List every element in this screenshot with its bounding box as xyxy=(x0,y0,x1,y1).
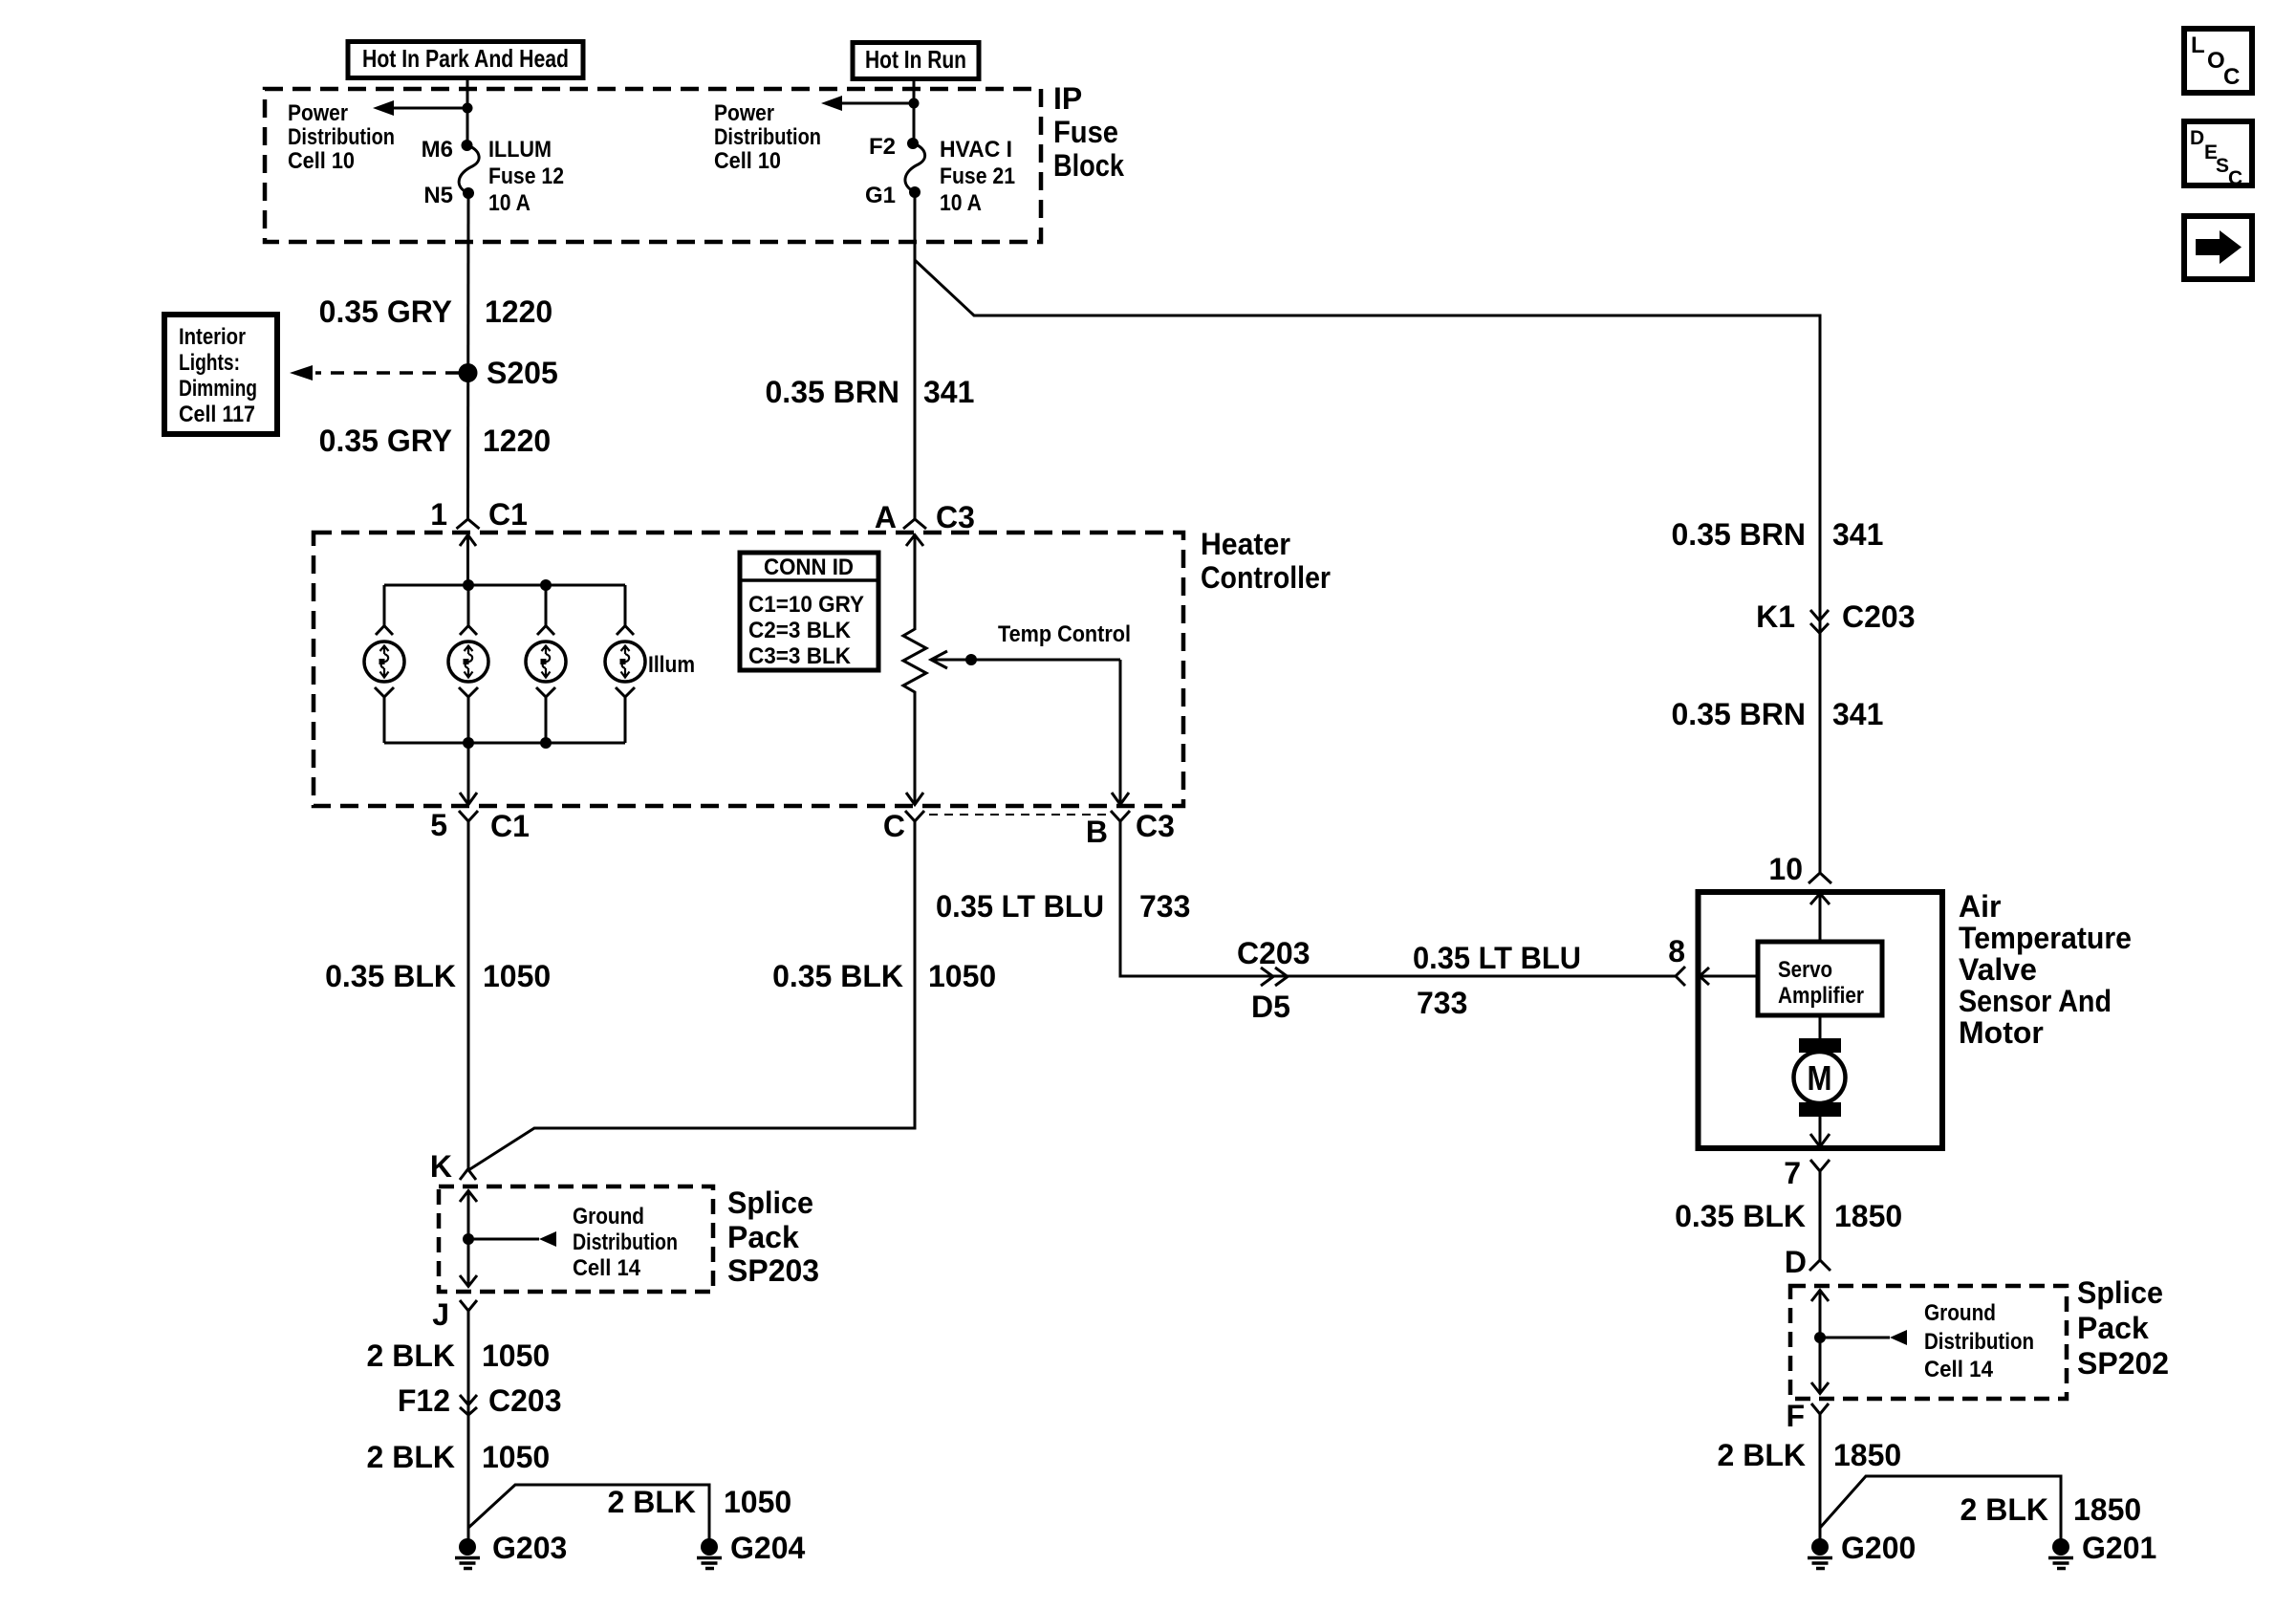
svg-text:2 BLK: 2 BLK xyxy=(1960,1492,2048,1527)
wire 341 BRN from G1 down to pin A xyxy=(914,192,917,519)
svg-text:Controller: Controller xyxy=(1201,560,1331,595)
svg-text:10 A: 10 A xyxy=(940,190,982,216)
ground G204 xyxy=(697,1538,722,1569)
ground G201 xyxy=(2048,1538,2073,1569)
connector chevron pin J xyxy=(460,1300,477,1311)
entry arrow pin1 inside heater box xyxy=(460,535,476,586)
label IP Fuse Block xyxy=(1053,81,1124,183)
svg-text:C: C xyxy=(2228,167,2242,189)
wire from Hot In Park And Head into fuse 12 xyxy=(466,77,469,147)
svg-text:Block: Block xyxy=(1053,148,1124,183)
exit wire pin5 with down arrow xyxy=(460,743,477,805)
svg-text:733: 733 xyxy=(1139,889,1190,924)
svg-text:K1: K1 xyxy=(1756,599,1795,634)
svg-text:1050: 1050 xyxy=(724,1485,791,1519)
svg-text:G203: G203 xyxy=(492,1531,567,1565)
in-line connector K1 C203 (double chevron down) xyxy=(1810,610,1829,633)
svg-text:J: J xyxy=(432,1297,449,1332)
connector chevron pin 10 xyxy=(1809,873,1831,883)
wire 733 LT BLU down from B xyxy=(1120,821,1676,976)
Servo Amplifier box xyxy=(1758,942,1882,1015)
arrow to Power Distribution (right) xyxy=(821,96,914,111)
svg-text:0.35 GRY: 0.35 GRY xyxy=(319,424,452,458)
motor M top commutator block xyxy=(1799,1038,1841,1053)
svg-text:Temp Control: Temp Control xyxy=(998,621,1131,647)
illumination lamp 2 xyxy=(448,585,488,743)
IP fuse block dashed box xyxy=(265,89,1041,242)
svg-text:Ground: Ground xyxy=(573,1204,644,1229)
Splice Pack SP202 dashed box xyxy=(1790,1286,2067,1399)
svg-text:Fuse 12: Fuse 12 xyxy=(488,163,564,189)
connector chevron pin 7 xyxy=(1810,1160,1830,1171)
svg-text:Distribution: Distribution xyxy=(288,124,395,150)
svg-text:0.35 BRN: 0.35 BRN xyxy=(1672,517,1807,552)
dashed arrow to Interior Lights Dimming xyxy=(290,365,459,381)
svg-text:8: 8 xyxy=(1668,934,1685,968)
label 0.35 BRN 341 (center) xyxy=(766,375,975,409)
exit wire pin 7 with down arrow xyxy=(1810,1117,1830,1147)
svg-text:Hot In Park And Head: Hot In Park And Head xyxy=(362,44,569,73)
label pin A connector C3 xyxy=(875,500,975,534)
svg-text:C203: C203 xyxy=(488,1383,562,1418)
svg-text:C3: C3 xyxy=(936,500,975,534)
label Splice Pack SP203 xyxy=(727,1186,819,1288)
wire from Hot In Run into fuse 21 xyxy=(913,78,916,144)
svg-text:D: D xyxy=(1785,1245,1807,1279)
svg-text:Valve: Valve xyxy=(1959,952,2037,987)
connector chevron pin K xyxy=(460,1169,476,1180)
wire servo amplifier to motor xyxy=(1819,1015,1822,1038)
svg-text:Illum: Illum xyxy=(648,652,695,678)
label box Hot In Park And Head xyxy=(348,42,583,78)
splice SP202 internal wire with arrows xyxy=(1811,1291,1829,1395)
label ILLUM Fuse 12 10 A xyxy=(488,137,564,216)
node junction at Hot In Run feed xyxy=(909,98,920,109)
wire 1850 BLK F to G200 xyxy=(1819,1414,1822,1539)
svg-text:Fuse 21: Fuse 21 xyxy=(940,163,1015,189)
svg-text:C2=3 BLK: C2=3 BLK xyxy=(748,618,852,643)
svg-text:G204: G204 xyxy=(730,1531,805,1565)
svg-text:Distribution: Distribution xyxy=(573,1229,678,1255)
svg-text:Pack: Pack xyxy=(2077,1311,2149,1345)
svg-text:1850: 1850 xyxy=(2073,1492,2141,1527)
svg-text:Ground: Ground xyxy=(1924,1300,1996,1326)
svg-text:341: 341 xyxy=(1832,517,1883,552)
fuse 12 ILLUM (S-curve) xyxy=(459,145,479,193)
wire 1050 BLK J to G203 xyxy=(467,1311,470,1539)
splice SP203 internal wire with arrows xyxy=(460,1191,477,1288)
svg-text:Cell 117: Cell 117 xyxy=(179,402,255,427)
svg-text:C203: C203 xyxy=(1237,936,1310,970)
svg-text:Servo: Servo xyxy=(1778,957,1832,983)
svg-text:Dimming: Dimming xyxy=(179,376,257,402)
icon box DESC xyxy=(2184,121,2252,189)
label 0.35 LT BLU 733 (horizontal run) xyxy=(1413,941,1581,1020)
svg-text:0.35 GRY: 0.35 GRY xyxy=(319,294,452,329)
svg-text:G200: G200 xyxy=(1841,1531,1916,1565)
node splice SP202 xyxy=(1814,1332,1826,1343)
svg-text:Cell 10: Cell 10 xyxy=(288,148,355,174)
svg-text:Hot In Run: Hot In Run xyxy=(865,45,966,74)
label 2 BLK 1050 (branch) xyxy=(608,1485,792,1519)
svg-text:A: A xyxy=(875,500,897,534)
icon box LOC xyxy=(2184,29,2252,93)
label Power Distribution Cell 10 (left) xyxy=(288,100,395,174)
svg-text:341: 341 xyxy=(1832,697,1883,731)
label 0.35 BLK 1850 xyxy=(1675,1199,1902,1233)
svg-text:7: 7 xyxy=(1784,1156,1801,1190)
illumination lamp 3 xyxy=(526,585,566,743)
connector chevron pin 1 C1 xyxy=(457,519,480,529)
connector dashed link C to B xyxy=(929,814,1106,816)
label K1 / C203 xyxy=(1756,599,1915,634)
temp control resistor (zigzag) xyxy=(903,629,926,694)
in-line connector F12 C203 (double chevron down) xyxy=(460,1395,477,1415)
svg-text:D5: D5 xyxy=(1251,990,1290,1024)
svg-text:0.35 BLK: 0.35 BLK xyxy=(325,959,456,993)
node on top bus at x571 xyxy=(540,579,552,591)
svg-text:Splice: Splice xyxy=(2077,1275,2163,1310)
wire below resistor with down arrow to pin C xyxy=(906,694,923,805)
svg-text:B: B xyxy=(1086,815,1108,849)
svg-text:IP: IP xyxy=(1053,81,1082,116)
box Interior Lights Dimming Cell 117 xyxy=(164,315,277,434)
svg-text:SP202: SP202 xyxy=(2077,1346,2169,1381)
svg-text:2 BLK: 2 BLK xyxy=(1718,1438,1806,1472)
node splice SP203 xyxy=(463,1233,474,1245)
svg-text:G201: G201 xyxy=(2082,1531,2156,1565)
svg-text:1850: 1850 xyxy=(1834,1199,1902,1233)
svg-text:O: O xyxy=(2207,48,2225,74)
branch wire to G204 xyxy=(468,1485,709,1539)
svg-text:C1=10 GRY: C1=10 GRY xyxy=(748,592,864,618)
arrow from servo amplifier to pin 8 xyxy=(1700,968,1758,985)
label 0.35 LT BLU 733 (vertical run) xyxy=(936,889,1190,924)
label 0.35 BRN 341 (right upper) xyxy=(1672,517,1884,552)
svg-text:0.35 BRN: 0.35 BRN xyxy=(766,375,900,409)
wire 1850 BLK pin 7 to D xyxy=(1819,1171,1822,1260)
label pin B and C3 xyxy=(1086,809,1175,849)
node on bottom bus at x490 xyxy=(463,737,474,749)
svg-text:2 BLK: 2 BLK xyxy=(367,1440,455,1474)
svg-text:C: C xyxy=(883,809,905,843)
svg-text:Lights:: Lights: xyxy=(179,350,240,376)
svg-text:K: K xyxy=(430,1149,452,1184)
svg-text:Pack: Pack xyxy=(727,1220,799,1254)
connector chevron pin A C3 xyxy=(903,519,926,529)
svg-text:C3: C3 xyxy=(1136,809,1175,843)
svg-text:10 A: 10 A xyxy=(488,190,531,216)
svg-text:1: 1 xyxy=(430,497,447,532)
Splice Pack SP203 dashed box xyxy=(439,1186,713,1292)
terminal G1 dot xyxy=(909,186,921,198)
connector chevron pin 8 xyxy=(1676,967,1685,986)
svg-text:Cell 14: Cell 14 xyxy=(1924,1357,1994,1382)
svg-text:C3=3 BLK: C3=3 BLK xyxy=(748,643,852,669)
svg-text:Motor: Motor xyxy=(1959,1015,2044,1050)
splice S205 dot xyxy=(459,363,478,382)
svg-text:HVAC I: HVAC I xyxy=(940,137,1012,163)
svg-text:S: S xyxy=(2216,155,2229,177)
icon box right-arrow xyxy=(2184,216,2252,279)
arrow to Ground Distribution (SP203) xyxy=(468,1231,556,1247)
svg-text:F: F xyxy=(1786,1399,1805,1433)
wire 1050 BLK left column down to K xyxy=(467,821,470,1168)
svg-text:0.35 LT BLU: 0.35 LT BLU xyxy=(936,889,1104,924)
svg-text:Distribution: Distribution xyxy=(1924,1329,2034,1355)
label Power Distribution Cell 10 (right) xyxy=(714,100,821,174)
svg-text:Cell 14: Cell 14 xyxy=(573,1255,641,1281)
svg-text:C1: C1 xyxy=(488,497,528,532)
label Ground Distribution Cell 14 (SP203) xyxy=(573,1204,678,1281)
svg-text:1220: 1220 xyxy=(485,294,552,329)
svg-text:1050: 1050 xyxy=(482,1440,550,1474)
Air Temperature Valve Sensor And Motor box xyxy=(1699,892,1943,1148)
svg-text:C: C xyxy=(2223,64,2240,90)
svg-text:SP203: SP203 xyxy=(727,1253,819,1288)
Heater Controller dashed box xyxy=(314,533,1183,806)
svg-text:Heater: Heater xyxy=(1201,527,1290,561)
terminal F2 dot xyxy=(907,138,919,149)
CONN ID table xyxy=(740,553,878,670)
ground G200 xyxy=(1808,1538,1832,1569)
fuse 21 HVAC I (S-curve) xyxy=(905,143,925,192)
node junction at Hot In Park feed xyxy=(463,103,473,114)
ground G203 xyxy=(455,1538,480,1569)
connector chevron pin C xyxy=(905,811,924,821)
svg-text:N5: N5 xyxy=(423,183,453,208)
label 2 BLK 1850 (left) xyxy=(1718,1438,1902,1472)
svg-text:0.35 LT BLU: 0.35 LT BLU xyxy=(1413,941,1581,975)
svg-text:F12: F12 xyxy=(398,1383,450,1418)
svg-text:Splice: Splice xyxy=(727,1186,813,1220)
label HVAC I Fuse 21 10 A xyxy=(940,137,1015,216)
entry arrow pin A inside heater box xyxy=(906,535,923,631)
label Ground Distribution Cell 14 (SP202) xyxy=(1924,1300,2034,1382)
label box Hot In Run xyxy=(853,43,979,79)
svg-text:Fuse: Fuse xyxy=(1053,115,1118,149)
svg-text:M: M xyxy=(1808,1058,1832,1098)
svg-text:0.35 BRN: 0.35 BRN xyxy=(1672,697,1807,731)
svg-text:CONN ID: CONN ID xyxy=(764,555,854,580)
svg-text:341: 341 xyxy=(923,375,974,409)
label pin 5 connector C1 xyxy=(430,808,530,843)
wire 1050 BLK from C down then left to K xyxy=(468,821,915,1170)
node on top bus at x490 xyxy=(463,579,474,591)
label Air Temperature Valve Sensor And Motor xyxy=(1959,889,2132,1050)
lamp top bus wire xyxy=(384,584,625,587)
arrow to Ground Distribution (SP202) xyxy=(1820,1330,1907,1345)
svg-text:Temperature: Temperature xyxy=(1959,921,2132,955)
branch wire to G201 xyxy=(1820,1476,2061,1539)
svg-text:Power: Power xyxy=(714,100,774,126)
label 2 BLK 1050 (upper) xyxy=(367,1338,551,1373)
svg-text:0.35 BLK: 0.35 BLK xyxy=(1675,1199,1806,1233)
svg-text:Interior: Interior xyxy=(179,324,246,350)
entry arrow pin 10 inside box xyxy=(1810,894,1830,943)
label Splice Pack SP202 xyxy=(2077,1275,2169,1381)
svg-text:L: L xyxy=(2191,33,2205,58)
svg-text:10: 10 xyxy=(1768,852,1803,886)
svg-text:G1: G1 xyxy=(865,183,896,208)
node on wiper wire xyxy=(965,654,977,665)
svg-text:0.35 BLK: 0.35 BLK xyxy=(772,959,903,993)
svg-text:ILLUM: ILLUM xyxy=(488,137,552,163)
label 0.35 GRY 1220 (upper) xyxy=(319,294,553,329)
label 0.35 GRY 1220 (lower) xyxy=(319,424,552,458)
wire 1220 GRY from fuse N5 down to connector C1 pin 1 xyxy=(466,193,470,519)
svg-text:Cell 10: Cell 10 xyxy=(714,148,781,174)
svg-text:C1: C1 xyxy=(490,809,530,843)
terminal N5 dot xyxy=(463,187,474,199)
connector chevron pin F xyxy=(1811,1403,1829,1414)
connector chevron pin D xyxy=(1809,1260,1830,1271)
lamp bottom bus wire xyxy=(384,742,625,745)
label 0.35 BLK 1050 (center) xyxy=(772,959,996,993)
potentiometer wiper arrow xyxy=(931,651,1120,668)
illumination lamp 1 xyxy=(364,585,404,743)
label C203 / D5 xyxy=(1237,936,1310,1024)
svg-text:Amplifier: Amplifier xyxy=(1778,983,1864,1009)
label 0.35 BRN 341 (right lower) xyxy=(1672,697,1884,731)
label 2 BLK 1050 (lower) xyxy=(367,1440,551,1474)
svg-text:S205: S205 xyxy=(487,356,558,390)
svg-text:Power: Power xyxy=(288,100,348,126)
svg-text:1050: 1050 xyxy=(483,959,551,993)
svg-text:Sensor And: Sensor And xyxy=(1959,984,2112,1018)
motor M circle xyxy=(1794,1052,1846,1103)
svg-text:Air: Air xyxy=(1959,889,2001,924)
svg-text:1220: 1220 xyxy=(483,424,551,458)
label 2 BLK 1850 (branch) xyxy=(1960,1492,2142,1527)
label F12 / C203 xyxy=(398,1383,562,1418)
svg-text:1050: 1050 xyxy=(928,959,996,993)
arrow to Power Distribution (left) xyxy=(373,100,467,116)
svg-text:1850: 1850 xyxy=(1833,1438,1901,1472)
svg-text:2 BLK: 2 BLK xyxy=(367,1338,455,1373)
connector chevron pin 5 C1 xyxy=(459,811,478,821)
svg-text:C203: C203 xyxy=(1842,599,1916,634)
label pin 1 connector C1 xyxy=(430,497,528,532)
terminal M6 dot xyxy=(462,140,473,151)
svg-text:5: 5 xyxy=(430,808,447,842)
label Heater Controller xyxy=(1201,527,1331,595)
wire 341 BRN branch from Hot In Run feed to right column xyxy=(915,260,1820,873)
svg-text:Distribution: Distribution xyxy=(714,124,821,150)
svg-text:D: D xyxy=(2190,127,2204,149)
svg-text:F2: F2 xyxy=(869,134,896,160)
svg-text:2 BLK: 2 BLK xyxy=(608,1485,696,1519)
svg-text:1050: 1050 xyxy=(482,1338,550,1373)
svg-text:M6: M6 xyxy=(422,137,453,163)
svg-text:733: 733 xyxy=(1417,986,1467,1020)
illumination lamp 4 xyxy=(605,585,645,743)
motor M bottom commutator block xyxy=(1799,1102,1841,1117)
label 0.35 BLK 1050 (left) xyxy=(325,959,551,993)
connector chevron pin B xyxy=(1111,811,1130,821)
wiper wire down to pin B with arrow xyxy=(1112,660,1129,805)
node on bottom bus at x571 xyxy=(540,737,552,749)
in-line connector C203 pin D5 (double chevron) xyxy=(1261,968,1288,986)
